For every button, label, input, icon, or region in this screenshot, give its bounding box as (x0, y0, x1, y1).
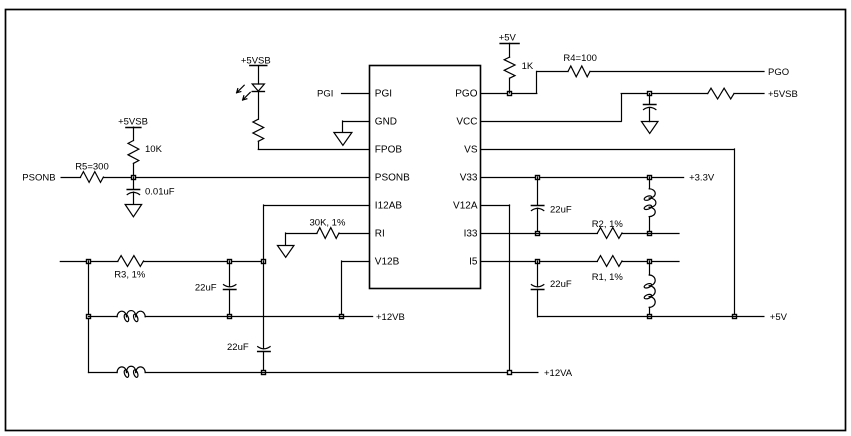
svg-text:22uF: 22uF (550, 205, 572, 216)
svg-text:V12A: V12A (453, 201, 478, 212)
wire I5 pin (481, 261, 597, 263)
svg-text:10K: 10K (145, 144, 163, 155)
svg-text:22uF: 22uF (195, 282, 217, 293)
wire R1 to stub end (622, 261, 679, 263)
wire I12AB node to C2 (263, 261, 265, 349)
IC U1 pin label PSONB (375, 173, 410, 184)
wire C1 to +12VB (229, 289, 231, 317)
wire I12AB pin (264, 205, 370, 261)
junction V33/L3 (648, 176, 652, 180)
IC U1 pin label FPOB (375, 145, 403, 156)
resistor R8 30K (317, 228, 339, 239)
resistor R7 10K (128, 141, 139, 164)
wire C3 to I33 (537, 208, 539, 233)
power +5VSB (LED) (241, 55, 271, 66)
resistor R6 (LED series) (253, 119, 264, 141)
junction L3/I33 (648, 232, 652, 236)
svg-text:R5=300: R5=300 (75, 162, 109, 173)
resistor R2 (597, 228, 622, 239)
wire 30K to ground (286, 233, 318, 245)
svg-text:+3.3V: +3.3V (689, 172, 715, 183)
inductor L2 (117, 366, 145, 378)
resistor R4 (568, 66, 590, 77)
wire 1K to PGO (509, 78, 511, 93)
wire V12B pin (342, 261, 370, 317)
resistor R3 (118, 256, 144, 267)
value label 10K (145, 144, 163, 155)
ground C6 (641, 122, 658, 134)
svg-text:+5VSB: +5VSB (118, 116, 148, 127)
wire PSONB to R5 (61, 177, 80, 179)
wire R5 to PSONB pin (103, 177, 369, 179)
IC U1 pin label VS (464, 145, 478, 156)
IC U1 pin label I33 (464, 229, 478, 240)
value label R2 1% (592, 219, 624, 230)
IC U1 body (370, 66, 481, 289)
wire left rail (88, 261, 90, 373)
junction R3/I12AB (262, 260, 266, 264)
svg-text:I33: I33 (464, 229, 478, 240)
svg-text:PGI: PGI (317, 88, 333, 99)
wire C2 to +12VA (263, 352, 265, 373)
wire R10 to +5VSB (734, 93, 764, 95)
resistor R1 (597, 256, 622, 267)
capacitor C1 22uF (224, 285, 236, 290)
junction V12A/+12VA (508, 371, 512, 375)
wire V33 pin (481, 177, 684, 179)
svg-text:I12AB: I12AB (375, 201, 403, 212)
node +12VB label (376, 312, 405, 323)
svg-text:PGI: PGI (375, 89, 392, 100)
wire +5VSB to 10K (133, 127, 135, 140)
wire V33 to C3 (537, 177, 539, 205)
wire PGO up (537, 71, 569, 93)
svg-text:R4=100: R4=100 (563, 53, 597, 64)
wire +5V to 1K (509, 43, 511, 57)
node +12VA label (544, 368, 573, 379)
resistor R10 (+5VSB series) (708, 88, 734, 99)
svg-text:RI: RI (375, 229, 385, 240)
wire GND pin (343, 121, 370, 132)
inductor L3 (644, 189, 656, 217)
svg-text:+5VSB: +5VSB (241, 55, 271, 66)
svg-text:R3, 1%: R3, 1% (114, 270, 146, 281)
svg-text:R1, 1%: R1, 1% (592, 272, 624, 283)
value label C3 22uF (550, 205, 572, 216)
svg-text:VS: VS (464, 145, 478, 156)
svg-text:+5V: +5V (770, 312, 788, 323)
wire L3 to I33 (649, 217, 651, 233)
wire +5V rail (538, 316, 764, 318)
capacitor C5 0.01uF (127, 190, 139, 195)
junction VCC/C6 (648, 92, 652, 96)
svg-text:+5VSB: +5VSB (768, 89, 798, 100)
svg-text:V12B: V12B (375, 257, 400, 268)
wire R4 to PGO out (590, 71, 764, 73)
wire R3 to I12AB node (144, 261, 264, 263)
IC U1 pin label PGO (455, 89, 477, 100)
svg-text:+12VA: +12VA (544, 368, 573, 379)
junction VS/+5V rail (733, 315, 737, 319)
junction PGO/1K (508, 92, 512, 96)
junction V12B/+12VB (340, 315, 344, 319)
svg-text:PGO: PGO (768, 67, 789, 78)
value label R5=300 (75, 162, 109, 173)
wire VCC to C6 (649, 94, 651, 105)
wire +5VSB to LED (258, 66, 260, 84)
wire L4 to +5V rail (649, 307, 651, 316)
inductor L4 (644, 275, 656, 307)
junction C3/I33 (536, 232, 540, 236)
node PSONB label (22, 172, 55, 183)
svg-text:22uF: 22uF (550, 279, 572, 290)
wire VS pin (481, 149, 735, 317)
wire I5 to C4 (537, 261, 539, 287)
value label 30K 1% (310, 218, 346, 229)
svg-text:R2, 1%: R2, 1% (592, 219, 624, 230)
value label C1 22uF (195, 282, 217, 293)
capacitor C3 22uF (531, 206, 543, 211)
svg-text:1K: 1K (522, 61, 534, 72)
IC U1 pin label V12A (453, 201, 478, 212)
ground RI (277, 246, 294, 258)
wire LED to resistor (258, 92, 260, 120)
svg-text:+12VB: +12VB (376, 312, 405, 323)
svg-text:V33: V33 (460, 173, 478, 184)
wire PSONB to C5 (133, 177, 135, 189)
IC U1 pin label I12AB (375, 201, 403, 212)
value label 1K (522, 61, 534, 72)
wire V12A pin (481, 205, 510, 373)
IC U1 pin label VCC (456, 117, 477, 128)
IC U1 pin label PGI (375, 89, 392, 100)
wire C4 to +5V rail (537, 289, 539, 316)
svg-text:I5: I5 (469, 257, 478, 268)
inductor L1 (117, 311, 145, 323)
svg-text:22uF: 22uF (227, 342, 249, 353)
value label C2 22uF (227, 342, 249, 353)
junction C2/+12VA (262, 371, 266, 375)
LED D1 (237, 84, 265, 100)
svg-text:0.01uF: 0.01uF (145, 187, 175, 198)
wire +12VA left (89, 372, 118, 374)
IC U1 pin label RI (375, 229, 385, 240)
value label C4 22uF (550, 279, 572, 290)
wire resistor to FPOB (258, 141, 369, 149)
wire C6 to ground (649, 108, 651, 122)
node +5VSB out label (768, 89, 798, 100)
wire VCC pin (481, 94, 708, 122)
power +5VSB (10K) (118, 116, 148, 127)
value label 0.01uF (145, 187, 175, 198)
ground C5 (125, 205, 141, 217)
junction I5/L4 (648, 260, 652, 264)
junction I5/C4 (536, 260, 540, 264)
junction left-rail/+12VB (87, 315, 91, 319)
value label R3 1% (114, 270, 146, 281)
wire +12VB rail (145, 316, 372, 318)
wire V33 to L3 (649, 177, 651, 189)
wire I33 pin (481, 233, 597, 235)
svg-text:GND: GND (375, 117, 397, 128)
node PGI label (317, 88, 333, 99)
svg-text:+5V: +5V (499, 32, 517, 43)
junction L4/+5V (648, 315, 652, 319)
wire RI to 30K (339, 233, 370, 235)
wire PGO pin (481, 93, 537, 95)
value label R4=100 (563, 53, 597, 64)
power +5V (499, 32, 519, 43)
IC U1 pin label V33 (460, 173, 478, 184)
resistor R5 (81, 172, 104, 183)
svg-text:FPOB: FPOB (375, 145, 403, 156)
capacitor C6 (VCC bypass) (644, 105, 656, 110)
junction C1/+12VB (228, 315, 232, 319)
svg-text:VCC: VCC (456, 117, 477, 128)
wire 10K to PSONB line (133, 163, 135, 177)
capacitor C4 22uF (531, 285, 543, 290)
IC U1 pin label GND (375, 117, 397, 128)
junction R3/left-rail (87, 260, 91, 264)
wire C5 to ground (133, 192, 135, 204)
wire R3 to C1 (229, 261, 231, 287)
node +3.3V label (689, 172, 715, 183)
svg-text:30K, 1%: 30K, 1% (310, 218, 346, 229)
junction V33/C3 (536, 176, 540, 180)
wire R3 left stub (60, 261, 118, 263)
ground GND pin (334, 133, 352, 146)
svg-text:PSONB: PSONB (22, 172, 55, 183)
value label R1 1% (592, 272, 624, 283)
wire +12VA rail (145, 372, 538, 374)
node PGO out label (768, 67, 789, 78)
wire +12VB left (89, 316, 118, 318)
wire R2 to stub end (622, 233, 679, 235)
node +5V label (770, 312, 788, 323)
IC U1 pin label I5 (469, 257, 478, 268)
capacitor C2 22uF (258, 347, 270, 352)
resistor R9 1K (504, 57, 515, 78)
wire I5 to L4 (649, 261, 651, 275)
svg-text:PGO: PGO (455, 89, 477, 100)
junction PSONB/10K (132, 176, 136, 180)
IC U1 pin label V12B (375, 257, 400, 268)
wire PGI to pin (342, 93, 370, 95)
junction R3/C1 (228, 260, 232, 264)
svg-text:PSONB: PSONB (375, 173, 410, 184)
